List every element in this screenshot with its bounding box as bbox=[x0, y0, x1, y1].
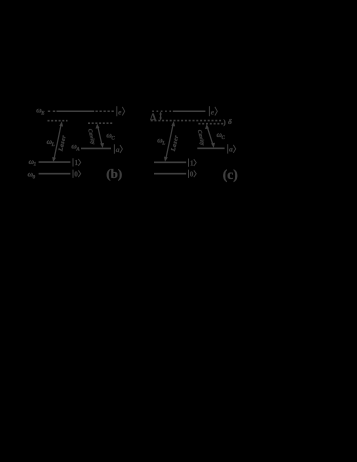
svg-text:Laser: Laser bbox=[171, 134, 180, 152]
svg-text:0: 0 bbox=[190, 171, 194, 179]
level |e> (c) lead-in dashes bbox=[152, 110, 171, 112]
level |1> (b) bbox=[39, 161, 71, 163]
ket |1> (c) bbox=[189, 159, 197, 168]
svg-text:1: 1 bbox=[34, 163, 37, 168]
virtual level 2 (c) dashed bbox=[198, 123, 224, 125]
level |e> (c) solid line bbox=[173, 110, 206, 112]
virtual level left (b) dashed bbox=[48, 120, 68, 122]
cavity arrow (c) double-headed bbox=[207, 128, 213, 145]
level |e> (b) lead-in dashes bbox=[48, 110, 56, 112]
level |0> (b) bbox=[39, 173, 71, 175]
ket |0> (c) bbox=[189, 170, 197, 179]
level |e> (b) solid line bbox=[57, 110, 95, 112]
ket |1> (b) bbox=[73, 158, 81, 167]
ket |e> (b) bbox=[117, 106, 125, 116]
level |e> (b) trailing dashes bbox=[96, 110, 115, 112]
svg-text:a: a bbox=[116, 145, 120, 154]
svg-text:0: 0 bbox=[33, 175, 36, 180]
laser arrow (b) double-headed bbox=[54, 125, 61, 159]
level |a> (b) bbox=[81, 147, 111, 149]
svg-text:(c): (c) bbox=[223, 167, 238, 182]
svg-text:C: C bbox=[222, 136, 226, 141]
svg-text:Δ: Δ bbox=[150, 112, 156, 122]
svg-text:e: e bbox=[118, 107, 122, 116]
svg-text:L: L bbox=[51, 143, 55, 148]
ket |a> (b) bbox=[114, 144, 122, 154]
svg-text:Cavity: Cavity bbox=[86, 128, 96, 145]
level |1> (c) bbox=[154, 161, 186, 163]
cavity arrow (b) double-headed bbox=[98, 127, 102, 145]
svg-text:1: 1 bbox=[190, 159, 194, 167]
level |0> (c) bbox=[154, 173, 186, 175]
laser arrow (c) double-headed bbox=[166, 124, 173, 158]
svg-text:E: E bbox=[40, 112, 45, 117]
ket |a> (c) bbox=[228, 144, 236, 154]
svg-text:A: A bbox=[75, 148, 80, 153]
svg-text:Laser: Laser bbox=[58, 134, 67, 152]
ket |0> (b) bbox=[73, 170, 81, 179]
svg-text:(b): (b) bbox=[106, 166, 122, 181]
svg-text:): ) bbox=[223, 118, 226, 126]
svg-text:1: 1 bbox=[75, 159, 79, 167]
svg-text:C: C bbox=[111, 136, 115, 141]
Delta detuning arrow (c) vertical double-headed bbox=[160, 114, 162, 119]
svg-text:L: L bbox=[161, 141, 165, 146]
svg-text:e: e bbox=[211, 107, 215, 116]
svg-text:a: a bbox=[229, 145, 233, 154]
level |a> (c) bbox=[197, 147, 224, 149]
ket |e> (c) bbox=[209, 106, 217, 116]
svg-text:Cavity: Cavity bbox=[196, 129, 206, 146]
svg-text:0: 0 bbox=[74, 171, 78, 179]
virtual level 1 (c) dashed bbox=[151, 120, 222, 122]
svg-text:δ: δ bbox=[228, 117, 232, 126]
virtual level right (b) dashed bbox=[88, 122, 114, 124]
